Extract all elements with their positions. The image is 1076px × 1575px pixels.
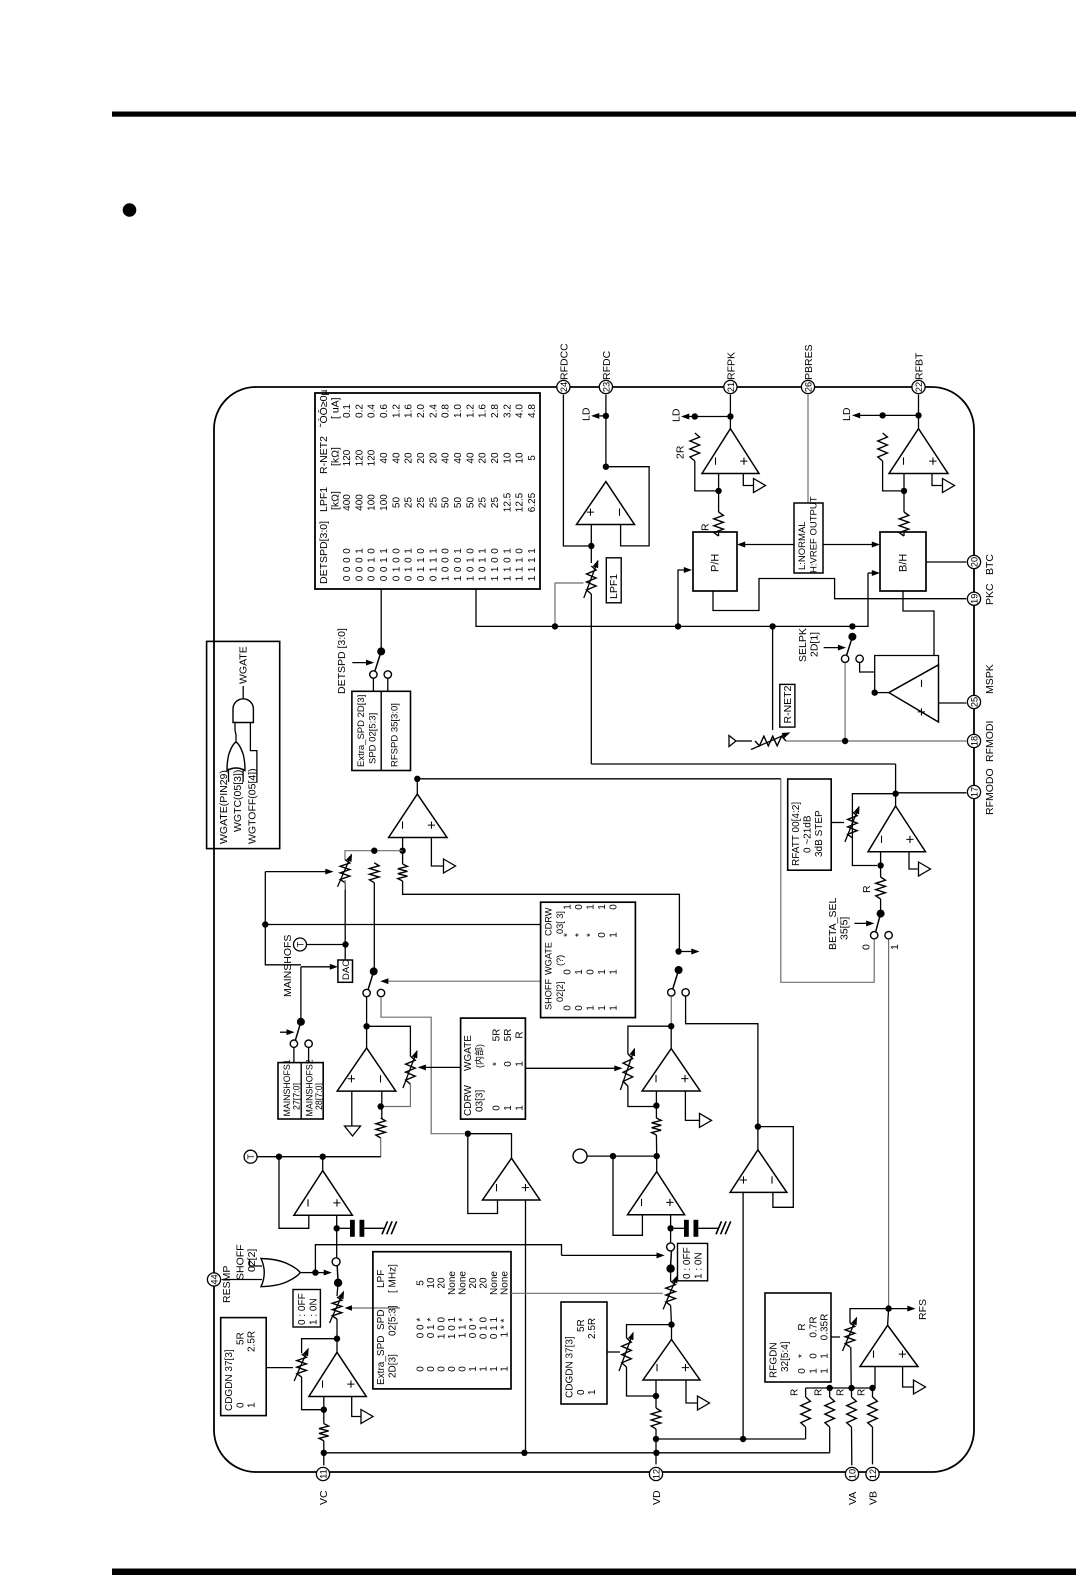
svg-text:1: 1 [515, 575, 526, 581]
svg-text:40: 40 [465, 452, 476, 464]
svg-text:12.5: 12.5 [502, 492, 513, 512]
svg-text:25: 25 [428, 497, 439, 509]
label DETSPD [3:0] [336, 628, 348, 694]
svg-text:12: 12 [868, 1469, 878, 1479]
svg-text:40: 40 [379, 452, 390, 464]
arrow resample control [315, 1270, 330, 1274]
svg-text:2.8: 2.8 [490, 404, 501, 418]
svg-text:+: + [677, 1363, 694, 1372]
wire WGATE output [242, 686, 244, 699]
wire O10 apex stub [670, 1026, 672, 1048]
pin 12 VB [866, 1467, 880, 1505]
svg-text:10: 10 [847, 1469, 857, 1479]
svg-text:0: 0 [515, 548, 526, 554]
wire O8 + flag [352, 1397, 361, 1417]
svg-text:0: 0 [416, 575, 427, 581]
wire throw2 bypass around [381, 997, 464, 1134]
svg-text:RFGDN: RFGDN [769, 1342, 780, 1378]
svg-text:BETA_SEL: BETA_SEL [827, 898, 839, 950]
node resistor top RFBT [879, 412, 885, 418]
label LD RFPK [671, 408, 683, 422]
svg-text:3.2: 3.2 [502, 404, 513, 418]
resistor R beta [876, 877, 886, 899]
label WGATE(PIN29) [218, 770, 230, 844]
svg-text:0: 0 [478, 566, 489, 572]
test flag O13 [698, 1396, 710, 1410]
wire SHOFF input to gate [250, 1259, 263, 1266]
svg-text:PKC: PKC [984, 583, 996, 605]
capacitor + ground O12 [674, 1220, 731, 1237]
svg-text:24: 24 [559, 382, 569, 392]
svg-text:22: 22 [914, 382, 924, 392]
svg-text:100: 100 [379, 494, 390, 511]
label box LPF1 [606, 558, 621, 603]
svg-text:1: 1 [597, 904, 608, 910]
node LD branch pin23 [603, 413, 609, 419]
svg-text:0: 0 [391, 548, 402, 554]
svg-text:0: 0 [428, 575, 439, 581]
label R beta [861, 885, 873, 893]
op-amp U1 RFDC [577, 482, 635, 525]
wire O4 feedback loop [875, 656, 939, 693]
node O8 apex [334, 1336, 340, 1342]
open arrow RFMODI left [729, 736, 752, 747]
capacitor + ground O9 [340, 1220, 397, 1237]
wire resistor to pin VC [323, 1441, 325, 1466]
svg-text:*: * [797, 1354, 808, 1358]
svg-text:1: 1 [574, 969, 585, 975]
wire CDGDN2 box to varres [607, 1351, 620, 1353]
svg-text:1 0 0: 1 0 0 [437, 1316, 448, 1339]
switch BETA_SEL [871, 910, 893, 939]
wire O3 - input [903, 474, 905, 513]
node O1 + / pin24 [588, 543, 594, 549]
svg-text:0: 0 [354, 566, 365, 572]
svg-text:0: 0 [437, 1366, 448, 1372]
wire RFGDN varres top to RFS node [850, 1309, 889, 1323]
svg-text:0: 0 [453, 566, 464, 572]
wire gate output [300, 1272, 315, 1274]
svg-text:0: 0 [597, 932, 608, 938]
svg-text:50: 50 [465, 497, 476, 509]
svg-text:25: 25 [490, 497, 501, 509]
op-amp U9 T follower [294, 1171, 353, 1216]
svg-text:−: − [873, 835, 890, 844]
svg-text:0: 0 [441, 566, 452, 572]
svg-text:120: 120 [354, 449, 365, 466]
op-amp U4 MSPK [889, 665, 939, 722]
label SHOFF 02[2] resample [235, 1244, 259, 1280]
svg-text:R-NET2: R-NET2 [782, 685, 794, 723]
wire CDGDN box to varres wiper [266, 1367, 293, 1369]
svg-text:0: 0 [342, 557, 353, 563]
svg-text:3dB STEP: 3dB STEP [814, 810, 825, 857]
svg-text:SHOFF: SHOFF [235, 1244, 247, 1280]
svg-text:10: 10 [502, 452, 513, 464]
svg-text:0: 0 [367, 566, 378, 572]
svg-text:0: 0 [416, 1366, 427, 1372]
wire resistor to T net [323, 1138, 381, 1157]
svg-text:5: 5 [416, 1280, 427, 1286]
resistor R RFBT [899, 512, 909, 536]
svg-text:WGATE: WGATE [238, 646, 250, 684]
svg-text:0 : 0FF: 0 : 0FF [682, 1247, 693, 1279]
pin 10 VA [845, 1467, 859, 1505]
node bus P/H branch [675, 623, 681, 629]
svg-text:1: 1 [527, 548, 538, 554]
svg-text:0: 0 [574, 1005, 585, 1011]
svg-text:−: − [914, 679, 931, 688]
svg-text:03[3]: 03[3] [475, 1090, 486, 1112]
op-amp U2 RFPK [702, 429, 759, 474]
svg-text:+: + [343, 1074, 360, 1083]
svg-text:−: − [373, 1074, 390, 1083]
ground O7 [345, 1126, 361, 1136]
svg-text:[ uA]: [ uA] [330, 397, 342, 419]
svg-text:RESMP: RESMP [221, 1266, 233, 1303]
node O14 VD bus [740, 1436, 746, 1442]
box RFGDN 32[5:4] [765, 1293, 831, 1382]
wire SELPK throw0 to RFMODI net [844, 663, 846, 743]
svg-text:1: 1 [404, 548, 415, 554]
svg-text:[kΩ]: [kΩ] [330, 447, 342, 466]
svg-text:B/H: B/H [898, 554, 910, 572]
wire LD branch RFPK [695, 416, 731, 418]
svg-text:1: 1 [391, 566, 402, 572]
svg-text:1: 1 [379, 548, 390, 554]
svg-text:17: 17 [969, 787, 979, 797]
wire LPF chain to output node [895, 764, 897, 794]
svg-text:1: 1 [453, 575, 464, 581]
wire R to P/H box [718, 532, 720, 536]
svg-text:1 : 0N: 1 : 0N [694, 1252, 705, 1279]
wire pin 21 down [729, 395, 731, 429]
svg-text:RFDCC: RFDCC [559, 343, 571, 380]
box CDGDN 37[3] left [221, 1318, 267, 1416]
svg-text:0: 0 [576, 1389, 587, 1395]
svg-text:5R: 5R [492, 1029, 503, 1042]
pin 18 RFMODI [967, 721, 996, 762]
op-amp U13 VD driver [643, 1340, 700, 1381]
svg-text:−: − [895, 457, 912, 466]
svg-text:25: 25 [404, 497, 415, 509]
box B/H [880, 532, 926, 591]
svg-text:1: 1 [515, 1105, 526, 1111]
svg-text:1: 1 [478, 557, 489, 563]
svg-text:20: 20 [416, 452, 427, 464]
svg-text:0: 0 [342, 566, 353, 572]
svg-text:+: + [424, 821, 441, 830]
node RFS output [885, 1305, 891, 1311]
wire O13 apex stub [671, 1325, 673, 1340]
svg-text:1: 1 [889, 944, 901, 950]
wire DETSPD throw stubs [373, 679, 387, 692]
wire O6 apex stub [416, 779, 418, 794]
svg-text:2D[1]: 2D[1] [809, 632, 821, 657]
IC body outline [214, 387, 974, 1472]
svg-text:None: None [447, 1271, 458, 1295]
box 0:OFF 1:ON VD [678, 1243, 708, 1280]
svg-text:T: T [296, 941, 306, 947]
svg-text:+: + [914, 707, 931, 716]
wire O6 resistor to switch bus [403, 881, 680, 952]
svg-text:RFBT: RFBT [914, 352, 926, 380]
svg-text:0.6: 0.6 [379, 404, 390, 418]
svg-text:0: 0 [458, 1366, 469, 1372]
svg-text:1: 1 [587, 1389, 598, 1395]
svg-text:CDGDN 37[3]: CDGDN 37[3] [565, 1336, 576, 1398]
wire O13 - input [655, 1380, 657, 1408]
svg-text:20: 20 [404, 452, 415, 464]
wire R2 bottom to VC bus [829, 1427, 831, 1453]
wire ladder top bus [806, 1387, 875, 1389]
wire O6 + flag [431, 838, 443, 867]
svg-text:1.6: 1.6 [404, 404, 415, 418]
arrow L:NORMAL to P/H [739, 542, 795, 546]
svg-text:02[2]: 02[2] [555, 982, 565, 1002]
svg-text:−: − [648, 1074, 665, 1083]
svg-text:20: 20 [490, 452, 501, 464]
node VC net [321, 1450, 327, 1456]
svg-text:1: 1 [502, 548, 513, 554]
page top rule [112, 112, 1076, 117]
pin 24 RFDCC [557, 343, 571, 394]
node VD resistor [653, 1436, 659, 1442]
wire DAC control from border area [264, 872, 266, 925]
wire varres bottom stub DAC [344, 880, 346, 890]
svg-text:1: 1 [820, 1353, 831, 1359]
wire gain network top [345, 851, 403, 860]
svg-text:0.2: 0.2 [354, 404, 365, 418]
svg-text:*: * [492, 1062, 503, 1066]
wire CD varres to LPF table [346, 1306, 400, 1310]
svg-text:VA: VA [847, 1492, 859, 1505]
node O7 input [363, 1023, 369, 1029]
svg-text:0: 0 [490, 548, 501, 554]
wire O1 + input [590, 525, 592, 564]
svg-text:LPF1: LPF1 [318, 487, 330, 512]
svg-text:1: 1 [527, 557, 538, 563]
wire O1 feedback loop [606, 467, 649, 546]
svg-text:5R: 5R [503, 1029, 514, 1042]
wire O7 - input [381, 1091, 383, 1118]
OR gate [227, 742, 245, 771]
arrow into DAC [301, 965, 337, 969]
variable resistor LPF1 [584, 561, 598, 598]
wire resistor to VD pin [655, 1429, 657, 1464]
svg-text:0: 0 [453, 557, 464, 563]
svg-text:1: 1 [586, 1005, 597, 1011]
svg-text:1: 1 [404, 566, 415, 572]
svg-text:1: 1 [453, 548, 464, 554]
svg-text:1: 1 [416, 566, 427, 572]
svg-text:1.6: 1.6 [478, 404, 489, 418]
op-amp U16 follower [483, 1158, 541, 1200]
resistor O13 to VD [651, 1408, 661, 1429]
svg-text:0: 0 [465, 548, 476, 554]
wire bus to R-NET2 wiper [772, 626, 774, 730]
wire O9 apex stub [322, 1157, 324, 1171]
op-amp U8 VC driver [309, 1352, 366, 1396]
svg-text:0: 0 [441, 557, 452, 563]
svg-text:40: 40 [391, 452, 402, 464]
op-amp U3 RFBT [889, 429, 948, 474]
svg-text:RFS: RFS [917, 1299, 929, 1320]
variable resistor RFGDN [843, 1318, 857, 1351]
wire R to BETA_SEL switch [880, 899, 882, 914]
svg-text:10: 10 [426, 1277, 437, 1289]
svg-text:12: 12 [651, 1469, 661, 1479]
wire pin 23 down [605, 395, 607, 467]
svg-text:None: None [500, 1271, 511, 1295]
svg-text:1: 1 [465, 557, 476, 563]
pin 20 BTC [967, 554, 996, 575]
svg-text:+: + [677, 1074, 694, 1083]
svg-text:5R: 5R [235, 1332, 246, 1345]
node O10 - input [653, 1102, 659, 1108]
resistor O6 feedback [398, 864, 408, 881]
svg-text:25: 25 [478, 497, 489, 509]
node VC bus VD [653, 1450, 659, 1456]
svg-text:0.7R: 0.7R [808, 1316, 819, 1337]
wire VC long bus [324, 1452, 830, 1454]
svg-text:0: 0 [391, 575, 402, 581]
wire LD branch RFBT [883, 414, 919, 416]
op-amp U12 [628, 1172, 685, 1215]
node O2 - input [715, 488, 721, 494]
svg-text:R: R [857, 1389, 868, 1396]
svg-text:*: * [563, 933, 574, 937]
node 2R top [692, 413, 698, 419]
svg-text:1.2: 1.2 [465, 404, 476, 418]
svg-text:1: 1 [478, 548, 489, 554]
node O6 output [414, 776, 420, 782]
wire R-NET2 to pin 18 RFMODI [786, 740, 966, 742]
wire terminal to O12 [587, 1155, 657, 1157]
variable resistor O7 feedback [403, 1051, 417, 1088]
svg-text:1: 1 [489, 1366, 500, 1372]
label WGTC(05[3]) [232, 770, 244, 832]
svg-text:[kΩ]: [kΩ] [330, 491, 342, 510]
node O8 - input [321, 1407, 327, 1413]
resistor O7 lower [376, 1118, 386, 1138]
page bottom rule [112, 1569, 1076, 1575]
wire LPF table to varres VD [511, 1292, 663, 1294]
label 1 throw [889, 944, 901, 950]
svg-text:1 0 1: 1 0 1 [447, 1316, 458, 1339]
svg-text:−: − [708, 457, 725, 466]
svg-text:23: 23 [601, 382, 611, 392]
svg-text:1: 1 [502, 575, 513, 581]
svg-text:0: 0 [391, 557, 402, 563]
svg-text:MAINSHOFS1: MAINSHOFS1 [282, 1059, 292, 1116]
svg-text:R: R [836, 1389, 847, 1396]
svg-text:0: 0 [342, 548, 353, 554]
svg-text:R: R [797, 1323, 808, 1330]
pin 44 RESMP [207, 1266, 233, 1303]
svg-text:25: 25 [969, 697, 979, 707]
svg-text:26: 26 [803, 382, 813, 392]
svg-text:0: 0 [379, 566, 390, 572]
variable resistor R-NET2 [751, 733, 789, 750]
node O12 feedback [610, 1153, 616, 1159]
svg-text:1: 1 [428, 557, 439, 563]
node gate output [312, 1269, 318, 1275]
svg-text:RFPK: RFPK [726, 352, 738, 380]
wire O2 output flag [743, 474, 753, 486]
wire ladder to O15 - input [873, 1367, 876, 1389]
wire O7 + ground [351, 1091, 353, 1126]
wire VD low bus [656, 1438, 806, 1440]
svg-text:0: 0 [354, 557, 365, 563]
svg-text:1 : 0N: 1 : 0N [309, 1298, 320, 1325]
node O6 - input [399, 848, 405, 854]
resistor 2R [690, 433, 700, 461]
node O4 output [872, 689, 878, 695]
node pin21 LD [727, 413, 733, 419]
pin 21 RFPK [724, 352, 738, 394]
svg-text:0 0 *: 0 0 * [468, 1318, 479, 1339]
node ladder R3 [848, 1385, 854, 1391]
wire BETA throw0 path [781, 779, 874, 983]
wire O15 apex stub [888, 1309, 889, 1326]
svg-text:0 1 1: 0 1 1 [489, 1316, 500, 1339]
svg-text:20: 20 [468, 1277, 479, 1289]
svg-text:CDRW: CDRW [463, 1085, 474, 1116]
variable resistor CDGDN1 [294, 1349, 308, 1381]
wire switch to varres CDGDN [337, 1283, 338, 1296]
arrow bus into B/H [868, 571, 879, 575]
switch SELPK [841, 633, 863, 663]
svg-text:11: 11 [318, 1469, 328, 1479]
pin 11 VC [316, 1467, 330, 1505]
LD arrow RFBT [854, 413, 883, 417]
wire O16 apex loop [468, 1134, 512, 1214]
arrow MAINSHOFS control [280, 1030, 293, 1034]
node RFMODI / SELPK [842, 738, 848, 744]
svg-text:5R: 5R [576, 1319, 587, 1332]
svg-text:2.4: 2.4 [428, 404, 439, 418]
node O13 - input [653, 1393, 659, 1399]
op-amp U5 RFMODO [868, 806, 926, 852]
wire RFGDN varres bottom [850, 1347, 852, 1388]
op-amp U6 RFSPD [389, 794, 447, 837]
svg-text:0: 0 [367, 548, 378, 554]
svg-text:0: 0 [861, 944, 873, 950]
svg-text:+: + [736, 457, 753, 466]
svg-text:LD: LD [841, 407, 853, 421]
wire O7 varres branch [367, 1026, 411, 1056]
svg-text:+: + [894, 1350, 911, 1359]
svg-text:DETSPD[3:0]: DETSPD[3:0] [318, 521, 330, 584]
wire O2 - input [718, 474, 720, 513]
wire switch to varres VD [670, 1269, 672, 1282]
svg-text:1: 1 [367, 557, 378, 563]
svg-text:2R: 2R [675, 445, 687, 459]
node bus R-NET2 branch [769, 623, 775, 629]
test flag O8 [361, 1410, 373, 1424]
node SHOFF arrow [675, 948, 681, 954]
svg-text:50: 50 [453, 497, 464, 509]
wire bus to P/H input [678, 568, 691, 627]
svg-text:1: 1 [465, 575, 476, 581]
svg-text:+: + [925, 457, 942, 466]
box Extra_SPD / RFSPD [352, 691, 411, 770]
wire B/H lower output [903, 591, 934, 656]
node T feedback [276, 1154, 282, 1160]
svg-text:2D[3]: 2D[3] [388, 1354, 399, 1378]
resistor RFBT feedback [878, 433, 888, 461]
